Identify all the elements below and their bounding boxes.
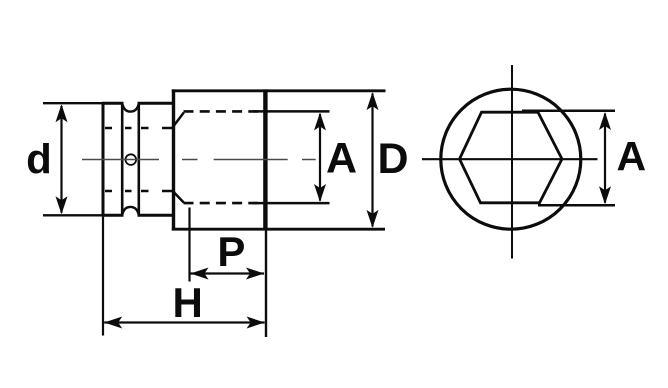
drive shaft top edge right segment xyxy=(138,102,175,105)
arrowhead A-left up xyxy=(314,113,326,131)
centerline left view segment 2 xyxy=(214,159,288,161)
hexagon (hex cavity) xyxy=(460,112,563,203)
groove left wall xyxy=(121,104,124,216)
centerline left view short dash xyxy=(182,159,198,161)
dimension arrow line P xyxy=(191,272,265,274)
arrowhead P left xyxy=(191,268,209,280)
svg-text:A: A xyxy=(616,133,646,179)
hidden edge dashed line upper (square drive) xyxy=(105,127,172,129)
wire: H left extension line xyxy=(102,217,104,336)
body bottom edge and D bottom extension line xyxy=(172,228,385,231)
wire: A bottom extension line (left view) xyxy=(253,202,330,205)
arrowhead A-right up xyxy=(599,112,611,130)
wire: front face lower extension line (P and H right) xyxy=(265,231,267,338)
arrowhead H left xyxy=(104,317,122,329)
svg-text:D: D xyxy=(377,135,408,183)
dimension arrow line A (right view) xyxy=(604,114,606,203)
arrowhead H right xyxy=(247,317,265,329)
arrowhead A-right down xyxy=(599,186,611,204)
wire: A top extension line (left view) xyxy=(253,110,330,113)
hidden edge dashed line lower (square drive) xyxy=(105,190,172,192)
hex cavity hidden bottom dashed line xyxy=(184,202,266,205)
drive shaft top edge left segment xyxy=(103,102,124,105)
drive shaft left face xyxy=(102,102,105,217)
centerline left view segment 1 xyxy=(82,159,159,161)
circle (socket outline end view) xyxy=(441,89,581,229)
body top edge and D top extension line xyxy=(172,89,386,92)
hex cavity hidden top dashed line xyxy=(184,110,266,113)
chamfer diagonal top xyxy=(173,113,184,128)
dimension arrow line D xyxy=(371,94,373,227)
groove right wall xyxy=(138,104,141,216)
svg-text:H: H xyxy=(173,279,203,326)
arrowhead D down xyxy=(367,210,379,228)
dimension arrow line H xyxy=(104,321,264,323)
centerline left view short dash 2 xyxy=(302,159,316,161)
arrowhead d down xyxy=(56,196,68,214)
svg-text:P: P xyxy=(217,228,245,275)
drive shaft bottom edge right segment xyxy=(138,214,175,217)
wire: A bottom extension line (right view) xyxy=(538,204,615,207)
vertical centerline right view xyxy=(511,65,513,259)
wire: A top extension line (right view) xyxy=(522,110,615,113)
arrowhead D up xyxy=(367,92,379,110)
svg-text:d: d xyxy=(26,136,52,183)
arrowhead P right xyxy=(246,268,264,280)
body front face (thick line) xyxy=(263,89,267,230)
arrowhead A-left down xyxy=(314,184,326,202)
chamfer diagonal bottom xyxy=(173,191,184,203)
groove top arc xyxy=(122,103,139,111)
dimension arrow line d xyxy=(60,106,62,213)
body left edge xyxy=(172,89,175,230)
wire: P left extension line xyxy=(188,208,190,282)
svg-text:A: A xyxy=(326,135,357,183)
arrowhead d up xyxy=(56,104,68,122)
detent ball hole circle xyxy=(126,154,137,165)
wire: d top extension line xyxy=(43,102,104,104)
dimension arrow line A (left view) xyxy=(319,114,321,201)
groove bottom arc xyxy=(122,207,139,215)
horizontal centerline right view xyxy=(422,158,598,160)
drive shaft bottom edge left segment xyxy=(103,214,124,217)
wire: d bottom extension line xyxy=(43,214,104,216)
